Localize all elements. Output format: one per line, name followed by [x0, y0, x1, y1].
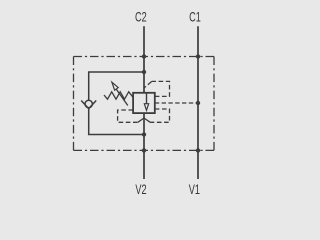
pilot line: C2 tap to top of pilot piston (dashed): [152, 81, 170, 96]
pilot line: V2 tap to bottom piston port (dashed): [150, 109, 169, 122]
port label V2: [135, 184, 146, 198]
svg-text:V2: V2: [135, 184, 146, 198]
pilot tap diagonal at C2 line: [144, 81, 152, 88]
pilot tap diagonals at V2 line: [138, 118, 150, 122]
adjustable spring: [104, 92, 133, 99]
wire: C2 port line (top): [143, 26, 145, 93]
wire: C1-V1 port line: [197, 26, 199, 179]
junction dot: C1 at envelope bottom: [196, 148, 200, 152]
port label C1: [189, 11, 201, 25]
pilot line: C1 to pilot piston middle (dashed): [155, 102, 198, 104]
svg-text:C2: C2: [135, 11, 147, 25]
valve body envelope (dash-dot boundary): [74, 57, 215, 151]
main valve box (counterbalance cartridge): [133, 93, 155, 113]
junction dot: pilot line at C1: [196, 101, 200, 105]
junction dot: C2 at envelope top: [142, 54, 146, 58]
pilot line: spring chamber drain loop (dashed): [118, 110, 138, 122]
svg-text:C1: C1: [189, 11, 201, 25]
junction dot: upper branch tee: [142, 70, 146, 74]
internal flow path with arrow: [144, 93, 148, 111]
svg-text:V1: V1: [189, 183, 200, 197]
port label V1: [189, 183, 200, 197]
adjustment arrow across spring: [112, 82, 128, 105]
check valve CV (ball and seat): [81, 100, 96, 108]
junction dot: C2 at envelope bottom: [142, 148, 146, 152]
wire: V2 line (below valve): [143, 113, 145, 179]
junction dot: C1 at envelope top: [196, 54, 200, 58]
port label C2: [135, 11, 147, 25]
junction dot: lower branch tee: [142, 132, 146, 136]
wire: check-valve branch loop: [89, 72, 144, 135]
